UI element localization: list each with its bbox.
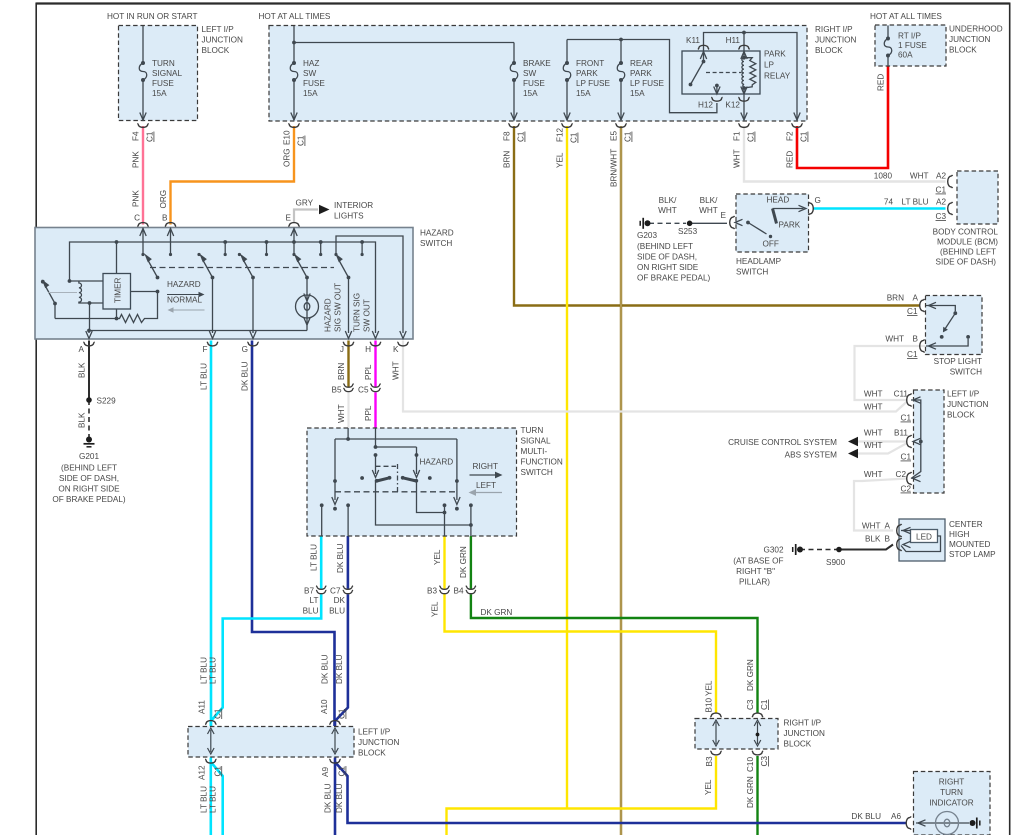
- svg-text:STOP LIGHT: STOP LIGHT: [934, 357, 982, 366]
- svg-text:RIGHT I/P: RIGHT I/P: [784, 719, 822, 728]
- svg-text:(BEHIND LEFT: (BEHIND LEFT: [940, 248, 996, 257]
- svg-text:WHT: WHT: [862, 522, 881, 531]
- svg-text:C1: C1: [901, 453, 912, 462]
- svg-text:C1: C1: [213, 708, 222, 719]
- svg-text:C1: C1: [213, 766, 222, 777]
- svg-text:FUSE: FUSE: [523, 79, 545, 88]
- svg-text:C3: C3: [746, 699, 755, 710]
- svg-text:LT BLU: LT BLU: [209, 786, 218, 813]
- svg-text:STOP LAMP: STOP LAMP: [949, 550, 996, 559]
- svg-text:WHT: WHT: [864, 403, 883, 412]
- svg-text:C1: C1: [901, 414, 912, 423]
- svg-text:LP FUSE: LP FUSE: [576, 79, 611, 88]
- svg-text:RELAY: RELAY: [764, 72, 791, 81]
- svg-text:DK BLU: DK BLU: [336, 543, 345, 573]
- svg-text:A10: A10: [320, 699, 329, 714]
- svg-text:60A: 60A: [898, 51, 913, 60]
- svg-text:SWITCH: SWITCH: [420, 239, 452, 248]
- svg-text:C1: C1: [517, 131, 526, 142]
- svg-text:B11: B11: [894, 429, 908, 438]
- svg-text:A: A: [885, 522, 891, 531]
- svg-text:B3: B3: [705, 756, 714, 766]
- svg-text:CENTER: CENTER: [949, 520, 983, 529]
- svg-text:REAR: REAR: [630, 59, 653, 68]
- svg-text:PILLAR): PILLAR): [739, 578, 770, 587]
- svg-text:SIDE OF DASH,: SIDE OF DASH,: [637, 253, 697, 262]
- svg-text:E5: E5: [609, 131, 618, 141]
- svg-text:G: G: [815, 196, 821, 205]
- svg-text:YEL: YEL: [555, 152, 564, 168]
- svg-text:A2: A2: [936, 198, 946, 207]
- svg-text:DK BLU: DK BLU: [324, 783, 333, 813]
- svg-text:C1: C1: [297, 135, 306, 146]
- svg-text:S229: S229: [97, 397, 117, 406]
- svg-text:LEFT I/P: LEFT I/P: [202, 25, 235, 34]
- svg-text:F1: F1: [732, 131, 741, 141]
- svg-text:TURN SIG: TURN SIG: [353, 293, 362, 332]
- svg-text:BODY CONTROL: BODY CONTROL: [933, 228, 999, 237]
- svg-text:SIGNAL: SIGNAL: [152, 69, 182, 78]
- svg-text:DK BLU: DK BLU: [240, 361, 249, 391]
- svg-text:LT BLU: LT BLU: [200, 786, 209, 813]
- svg-text:BLOCK: BLOCK: [784, 740, 812, 749]
- svg-text:DK BLU: DK BLU: [335, 654, 344, 684]
- svg-text:(AT BASE OF: (AT BASE OF: [733, 557, 783, 566]
- svg-text:DK: DK: [334, 596, 346, 605]
- svg-text:RIGHT: RIGHT: [939, 778, 964, 787]
- svg-text:C1: C1: [936, 186, 947, 195]
- svg-text:LIGHTS: LIGHTS: [334, 212, 364, 221]
- svg-text:G203: G203: [637, 231, 657, 240]
- svg-text:WHT: WHT: [658, 206, 677, 215]
- svg-text:C1: C1: [747, 131, 756, 142]
- svg-text:15A: 15A: [576, 89, 591, 98]
- svg-text:HEAD: HEAD: [767, 196, 790, 205]
- svg-text:F4: F4: [131, 131, 140, 141]
- svg-text:SIG SW OUT: SIG SW OUT: [334, 283, 343, 332]
- svg-text:JUNCTION: JUNCTION: [947, 400, 988, 409]
- svg-text:RIGHT I/P: RIGHT I/P: [815, 25, 853, 34]
- svg-text:MOUNTED: MOUNTED: [949, 540, 990, 549]
- svg-text:C2: C2: [901, 485, 912, 494]
- svg-text:NORMAL: NORMAL: [167, 296, 202, 305]
- svg-text:C1: C1: [907, 350, 918, 359]
- svg-text:BLOCK: BLOCK: [947, 411, 975, 420]
- svg-text:WHT: WHT: [337, 404, 346, 423]
- svg-text:UNDERHOOD: UNDERHOOD: [949, 25, 1003, 34]
- svg-text:BLK/: BLK/: [659, 196, 677, 205]
- svg-text:WHT: WHT: [885, 335, 904, 344]
- svg-text:ABS SYSTEM: ABS SYSTEM: [785, 451, 838, 460]
- svg-text:C: C: [134, 214, 140, 223]
- svg-text:C3: C3: [936, 212, 947, 221]
- svg-text:C1: C1: [338, 766, 347, 777]
- svg-text:SIGNAL: SIGNAL: [521, 437, 551, 446]
- svg-text:F2: F2: [785, 131, 794, 141]
- svg-text:ON RIGHT SIDE: ON RIGHT SIDE: [58, 485, 120, 494]
- svg-text:WHT: WHT: [391, 361, 400, 380]
- svg-text:ORG: ORG: [159, 190, 168, 209]
- svg-text:F8: F8: [502, 131, 511, 141]
- svg-text:SW: SW: [303, 69, 316, 78]
- svg-text:CRUISE CONTROL SYSTEM: CRUISE CONTROL SYSTEM: [728, 438, 837, 447]
- svg-text:BLOCK: BLOCK: [815, 46, 843, 55]
- svg-text:A12: A12: [197, 765, 206, 780]
- svg-text:BLK: BLK: [77, 362, 86, 378]
- svg-text:1080: 1080: [874, 172, 893, 181]
- svg-text:YEL: YEL: [433, 549, 442, 565]
- svg-text:PPL: PPL: [364, 405, 373, 421]
- svg-text:LEFT I/P: LEFT I/P: [358, 728, 391, 737]
- svg-text:PARK: PARK: [576, 69, 598, 78]
- svg-text:WHT: WHT: [864, 470, 883, 479]
- svg-text:JUNCTION: JUNCTION: [949, 35, 990, 44]
- svg-text:S253: S253: [678, 227, 698, 236]
- svg-text:A11: A11: [197, 700, 206, 714]
- svg-text:C10: C10: [746, 757, 755, 772]
- svg-text:WHT: WHT: [732, 149, 741, 168]
- svg-text:15A: 15A: [630, 89, 645, 98]
- svg-text:E: E: [286, 214, 292, 223]
- svg-text:HAZARD: HAZARD: [324, 298, 333, 332]
- svg-text:PPL: PPL: [364, 364, 373, 380]
- svg-text:C1: C1: [800, 131, 809, 142]
- svg-text:B7: B7: [304, 587, 314, 596]
- svg-text:LT BLU: LT BLU: [310, 544, 319, 571]
- svg-text:FUSE: FUSE: [152, 79, 174, 88]
- svg-text:C1: C1: [570, 132, 579, 143]
- svg-text:HOT IN RUN OR START: HOT IN RUN OR START: [107, 12, 198, 21]
- svg-text:15A: 15A: [152, 89, 167, 98]
- svg-text:LT BLU: LT BLU: [209, 657, 218, 684]
- svg-text:E10: E10: [282, 130, 291, 145]
- svg-text:ORG: ORG: [282, 148, 291, 167]
- svg-text:G: G: [242, 345, 248, 354]
- svg-text:(BEHIND LEFT: (BEHIND LEFT: [61, 464, 117, 473]
- svg-text:C3: C3: [760, 756, 769, 767]
- svg-text:74: 74: [884, 198, 894, 207]
- svg-text:DK GRN: DK GRN: [746, 659, 755, 691]
- svg-text:G302: G302: [763, 546, 783, 555]
- svg-text:ON RIGHT SIDE: ON RIGHT SIDE: [637, 263, 699, 272]
- svg-text:SW: SW: [523, 69, 536, 78]
- svg-text:INTERIOR: INTERIOR: [334, 201, 373, 210]
- svg-text:TURN: TURN: [940, 788, 963, 797]
- svg-text:BLK: BLK: [77, 412, 86, 428]
- svg-text:C7: C7: [330, 587, 341, 596]
- svg-text:WHT: WHT: [864, 441, 883, 450]
- svg-text:RED: RED: [785, 151, 794, 168]
- svg-text:RED: RED: [876, 74, 885, 91]
- svg-text:PARK: PARK: [764, 50, 786, 59]
- svg-text:WHT: WHT: [864, 390, 883, 399]
- svg-text:MULTI-: MULTI-: [521, 447, 548, 456]
- svg-text:LT: LT: [310, 596, 319, 605]
- svg-text:PNK: PNK: [131, 151, 140, 168]
- svg-text:BLOCK: BLOCK: [202, 46, 230, 55]
- svg-text:FUSE: FUSE: [303, 79, 325, 88]
- svg-text:E: E: [721, 211, 727, 220]
- svg-text:HAZARD: HAZARD: [420, 229, 454, 238]
- svg-text:PARK: PARK: [779, 221, 801, 230]
- svg-text:SWITCH: SWITCH: [521, 468, 553, 477]
- svg-text:BLU: BLU: [303, 607, 319, 616]
- svg-text:1 FUSE: 1 FUSE: [898, 41, 927, 50]
- svg-text:SW OUT: SW OUT: [363, 299, 372, 332]
- svg-text:DK GRN: DK GRN: [459, 546, 468, 578]
- svg-text:B10: B10: [705, 697, 714, 712]
- svg-text:MODULE (BCM): MODULE (BCM): [937, 238, 998, 247]
- svg-text:C2: C2: [896, 470, 907, 479]
- svg-text:JUNCTION: JUNCTION: [784, 729, 825, 738]
- svg-text:YEL: YEL: [431, 601, 440, 617]
- svg-text:DK BLU: DK BLU: [335, 783, 344, 813]
- svg-text:A9: A9: [321, 767, 330, 777]
- svg-text:HOT AT ALL TIMES: HOT AT ALL TIMES: [259, 12, 331, 21]
- svg-text:G201: G201: [79, 452, 99, 461]
- svg-text:OF BRAKE PEDAL): OF BRAKE PEDAL): [52, 495, 126, 504]
- svg-text:K11: K11: [686, 36, 700, 45]
- svg-text:RT I/P: RT I/P: [898, 32, 921, 41]
- svg-text:OFF: OFF: [763, 240, 779, 249]
- svg-text:PARK: PARK: [630, 69, 652, 78]
- svg-text:LED: LED: [916, 533, 932, 542]
- svg-text:HAZARD: HAZARD: [167, 280, 201, 289]
- svg-text:15A: 15A: [303, 89, 318, 98]
- svg-text:WHT: WHT: [910, 172, 929, 181]
- svg-text:BLK: BLK: [865, 535, 881, 544]
- svg-text:B: B: [885, 535, 891, 544]
- svg-text:BLU: BLU: [329, 607, 345, 616]
- svg-text:BLK/: BLK/: [700, 196, 718, 205]
- svg-text:BRN: BRN: [502, 151, 511, 168]
- svg-text:F: F: [202, 345, 207, 354]
- svg-text:(BEHIND LEFT: (BEHIND LEFT: [637, 242, 693, 251]
- svg-text:C5: C5: [358, 386, 369, 395]
- svg-text:HOT AT ALL TIMES: HOT AT ALL TIMES: [870, 12, 942, 21]
- svg-text:B3: B3: [427, 587, 437, 596]
- svg-text:LT BLU: LT BLU: [200, 657, 209, 684]
- svg-text:BRN: BRN: [887, 294, 904, 303]
- svg-text:BRN: BRN: [337, 363, 346, 380]
- svg-text:YEL: YEL: [704, 779, 713, 795]
- svg-text:A6: A6: [891, 812, 901, 821]
- svg-text:B: B: [162, 214, 168, 223]
- svg-text:F12: F12: [555, 127, 564, 142]
- svg-text:B5: B5: [331, 386, 341, 395]
- svg-text:BRAKE: BRAKE: [523, 59, 551, 68]
- svg-text:DK GRN: DK GRN: [746, 776, 755, 808]
- svg-text:BLOCK: BLOCK: [358, 749, 386, 758]
- svg-text:LT BLU: LT BLU: [199, 363, 208, 390]
- svg-text:H: H: [365, 345, 371, 354]
- svg-text:A: A: [913, 294, 919, 303]
- svg-text:BRN/WHT: BRN/WHT: [609, 149, 618, 187]
- svg-text:JUNCTION: JUNCTION: [358, 738, 399, 747]
- svg-text:INDICATOR: INDICATOR: [929, 799, 973, 808]
- svg-text:YEL: YEL: [705, 680, 714, 696]
- svg-text:C1: C1: [624, 131, 633, 142]
- svg-text:B4: B4: [453, 587, 463, 596]
- svg-text:HEADLAMP: HEADLAMP: [736, 257, 782, 266]
- svg-text:JUNCTION: JUNCTION: [815, 36, 856, 45]
- svg-text:TIMER: TIMER: [114, 277, 123, 303]
- svg-text:BLOCK: BLOCK: [949, 46, 977, 55]
- svg-text:JUNCTION: JUNCTION: [202, 36, 243, 45]
- svg-text:PNK: PNK: [131, 190, 140, 207]
- svg-text:LEFT I/P: LEFT I/P: [947, 390, 980, 399]
- svg-text:H12: H12: [698, 101, 713, 110]
- svg-text:LEFT: LEFT: [476, 481, 496, 490]
- svg-text:LP: LP: [764, 61, 775, 70]
- svg-text:GRY: GRY: [296, 199, 314, 208]
- svg-text:HAZARD: HAZARD: [420, 458, 454, 467]
- svg-text:C1: C1: [907, 307, 918, 316]
- svg-text:LP FUSE: LP FUSE: [630, 79, 665, 88]
- svg-text:C1: C1: [760, 699, 769, 710]
- svg-text:K12: K12: [725, 101, 740, 110]
- svg-text:FUNCTION: FUNCTION: [521, 458, 563, 467]
- svg-text:RIGHT: RIGHT: [473, 462, 498, 471]
- svg-text:C1: C1: [146, 131, 155, 142]
- svg-text:SIDE OF DASH): SIDE OF DASH): [935, 258, 996, 267]
- svg-text:SWITCH: SWITCH: [950, 368, 982, 377]
- svg-text:DK GRN: DK GRN: [481, 608, 513, 617]
- svg-text:FRONT: FRONT: [576, 59, 604, 68]
- svg-text:A2: A2: [936, 172, 946, 181]
- svg-text:RIGHT "B": RIGHT "B": [736, 567, 775, 576]
- svg-text:WHT: WHT: [699, 206, 718, 215]
- svg-text:B: B: [913, 335, 919, 344]
- svg-text:J: J: [340, 345, 344, 354]
- svg-text:15A: 15A: [523, 89, 538, 98]
- svg-text:C11: C11: [894, 390, 909, 399]
- svg-text:S900: S900: [826, 558, 846, 567]
- svg-text:HIGH: HIGH: [949, 530, 970, 539]
- svg-text:SIDE OF DASH,: SIDE OF DASH,: [59, 474, 119, 483]
- svg-text:TURN: TURN: [521, 426, 544, 435]
- svg-text:K: K: [393, 345, 399, 354]
- svg-text:A: A: [79, 345, 85, 354]
- svg-text:LT BLU: LT BLU: [902, 198, 929, 207]
- svg-text:HAZ: HAZ: [303, 59, 319, 68]
- svg-text:DK BLU: DK BLU: [851, 812, 881, 821]
- svg-text:C1: C1: [338, 708, 347, 719]
- svg-text:WHT: WHT: [864, 429, 883, 438]
- svg-text:DK BLU: DK BLU: [321, 654, 330, 684]
- svg-text:H11: H11: [726, 36, 741, 45]
- svg-text:OF BRAKE PEDAL): OF BRAKE PEDAL): [637, 274, 711, 283]
- svg-text:TURN: TURN: [152, 59, 175, 68]
- svg-text:SWITCH: SWITCH: [736, 268, 768, 277]
